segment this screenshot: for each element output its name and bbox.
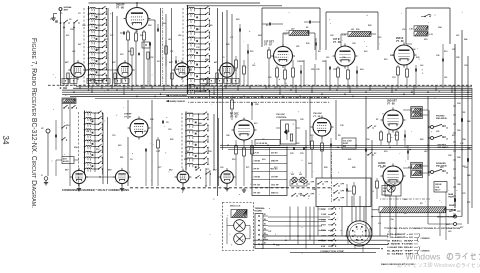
wire antenna feed	[60, 21, 62, 86]
svg-text:C50: C50	[255, 104, 258, 106]
svg-text:C3: C3	[78, 13, 80, 15]
svg-text:Windows: Windows	[434, 263, 455, 269]
gang dashed line to tuning	[188, 96, 330, 98]
wire v drop c	[335, 100, 337, 140]
wire v drop e	[371, 140, 373, 236]
svg-text:VT - 86: VT - 86	[396, 41, 404, 43]
svg-text:C31: C31	[330, 231, 333, 233]
svg-text:C78: C78	[290, 153, 293, 155]
wire if1 loop	[325, 12, 327, 50]
svg-text:C60: C60	[457, 103, 460, 105]
bottom bus 3	[254, 243, 388, 245]
svg-text:L71: L71	[230, 37, 233, 39]
svg-text:C51: C51	[311, 69, 314, 71]
svg-text:LM: LM	[291, 174, 294, 176]
svg-text:R35: R35	[226, 44, 229, 46]
dynamotor dashed enclosure	[223, 203, 254, 251]
table top box	[255, 140, 280, 146]
svg-text:8 FILAMENT + 6V: 8 FILAMENT + 6V	[387, 233, 414, 236]
svg-text:L11: L11	[378, 223, 381, 225]
wire right rail 2	[461, 30, 463, 217]
svg-text:S15: S15	[254, 123, 257, 125]
svg-text:E1: E1	[264, 214, 266, 216]
capacitor C79	[302, 147, 304, 150]
resistor R63	[321, 143, 324, 151]
svg-text:E5: E5	[264, 233, 266, 235]
bus junction dots	[60, 87, 469, 97]
tube V3 (RF amp)	[115, 60, 134, 79]
tube V5 (1ST IF)	[333, 44, 358, 69]
svg-text:2ND IF: 2ND IF	[396, 38, 404, 40]
cathode parts V5 C30	[355, 71, 357, 74]
capacitor C15	[246, 51, 248, 54]
svg-text:LF 40 HF 86: LF 40 HF 86	[257, 142, 268, 145]
svg-text:R46: R46	[464, 38, 467, 41]
svg-text:AUDIO: AUDIO	[378, 162, 386, 165]
coupling cap C66	[460, 118, 462, 121]
ground G3	[243, 188, 245, 190]
svg-text:L92: L92	[326, 57, 329, 59]
svg-text:1-30: 1-30	[342, 35, 346, 37]
svg-text:L1: L1	[372, 191, 374, 193]
svg-text:C30: C30	[268, 77, 271, 79]
coupling cap C68	[453, 198, 455, 201]
svg-text:C32: C32	[196, 47, 199, 49]
svg-text:R35: R35	[306, 43, 309, 45]
wire lamp leads	[290, 179, 292, 181]
svg-text:C52: C52	[150, 57, 153, 59]
svg-text:L85: L85	[424, 151, 427, 153]
svg-text:C50: C50	[366, 139, 369, 141]
resistor R16	[243, 66, 246, 74]
svg-text:BAND CHANGE: BAND CHANGE	[170, 100, 186, 103]
svg-text:2ND KC: 2ND KC	[271, 192, 279, 194]
svg-text:S83: S83	[118, 145, 121, 147]
svg-text:VT - 86: VT - 86	[387, 104, 395, 106]
wire right rail 3	[467, 56, 469, 224]
svg-text:L29: L29	[252, 65, 255, 67]
wire align leads	[74, 159, 79, 161]
resistor R61	[290, 134, 292, 141]
cathode parts V6 R40	[397, 67, 400, 75]
ground G2	[44, 177, 48, 181]
svg-text:C68: C68	[82, 25, 85, 27]
dynamotor filter choke	[231, 210, 247, 218]
svg-text:S93: S93	[384, 151, 387, 153]
wire J1 tails	[354, 246, 356, 249]
resistor R1	[127, 32, 130, 40]
resistor R51	[235, 146, 238, 154]
grid resistor network R22	[284, 70, 287, 79]
svg-text:R36: R36	[356, 29, 359, 31]
bottom bus 5	[290, 251, 376, 253]
trimmer block TC1	[142, 42, 150, 48]
bus wire top	[76, 85, 472, 87]
svg-text:R48: R48	[96, 48, 99, 51]
component reference labels	[66, 19, 467, 247]
svg-text:C61: C61	[462, 112, 465, 114]
svg-text:L21: L21	[351, 29, 354, 31]
svg-text:C1: C1	[60, 13, 62, 15]
svg-text:VT - 87: VT - 87	[230, 117, 238, 119]
scan speckle noise	[52, 10, 463, 254]
cathode parts V6 R41	[406, 69, 409, 77]
svg-text:S69: S69	[262, 159, 265, 161]
svg-text:R3: R3	[420, 203, 422, 205]
svg-text:R19: R19	[384, 59, 387, 61]
svg-text:ANT: ANT	[64, 9, 69, 12]
jack J3 (I.F. output)	[46, 129, 50, 133]
wire top rail 2	[188, 5, 283, 7]
capacitor C78	[292, 147, 294, 150]
svg-text:C66: C66	[342, 57, 345, 59]
svg-text:SIGNAL: SIGNAL	[64, 6, 73, 9]
wire mid rail 3	[228, 149, 472, 151]
svg-text:Windows: Windows	[406, 252, 441, 262]
svg-text:C68: C68	[467, 175, 470, 177]
cathode resistor R80	[376, 181, 379, 188]
watermark line 2 activation note	[0, 0, 1, 1]
potentiometer R60	[286, 124, 289, 132]
svg-text:2 GND: 2 GND	[321, 214, 327, 216]
gang dash switch	[331, 152, 333, 202]
pilot lamp PL1	[387, 184, 395, 192]
ground V9	[78, 187, 80, 189]
diode resistor R70	[380, 132, 383, 140]
terminal board TB1	[255, 214, 268, 249]
svg-text:R63: R63	[310, 135, 313, 137]
svg-text:VT - 86: VT - 86	[333, 42, 341, 44]
wire left links	[55, 120, 57, 150]
svg-text:C53: C53	[333, 69, 336, 71]
capacitor C17	[314, 43, 316, 46]
capacitor C16	[308, 21, 310, 24]
wire box drops	[309, 207, 311, 241]
svg-text:S35: S35	[120, 54, 123, 56]
bus wire B+	[73, 87, 472, 89]
svg-text:C91: C91	[274, 57, 277, 59]
svg-text:C28: C28	[352, 43, 355, 45]
svg-text:E2: E2	[264, 219, 266, 221]
svg-text:C96: C96	[436, 55, 439, 57]
wire V9 V10 link	[86, 176, 116, 178]
svg-text:S70: S70	[274, 167, 277, 169]
bottom bus junction dots	[261, 235, 383, 249]
top center capacitor labels	[60, 13, 336, 71]
svg-text:S89: S89	[236, 19, 239, 21]
svg-text:200 KC: 200 KC	[271, 152, 278, 154]
switch SW7	[63, 107, 64, 108]
svg-text:BD-77: BD-77	[435, 190, 440, 192]
coil bank L1 (1st RF switched coils)	[88, 6, 107, 89]
svg-text:4 SIDE TONE: 4 SIDE TONE	[387, 243, 414, 246]
svg-text:R88: R88	[150, 119, 153, 121]
cathode resistor V2	[67, 73, 69, 79]
svg-text:2: 2	[300, 172, 301, 174]
capacitor C82	[364, 149, 366, 152]
capacitor C20	[268, 23, 270, 26]
dashed gang bottom	[380, 198, 430, 200]
wire choke leads	[372, 209, 379, 211]
microphone jack J7	[454, 215, 457, 218]
resistor R52	[243, 148, 246, 156]
wire T2 leads	[341, 33, 348, 35]
svg-text:R49: R49	[352, 166, 355, 169]
svg-text:HF 8T: HF 8T	[254, 168, 260, 170]
svg-text:C85: C85	[456, 57, 459, 59]
svg-text:R76: R76	[250, 51, 253, 53]
tube V3A (RF amp)	[172, 60, 191, 79]
svg-text:C28: C28	[316, 69, 319, 71]
tube V1 (2ND RF VT-86)	[124, 5, 151, 32]
bus wire screen	[62, 89, 472, 91]
bias box B1	[382, 186, 392, 196]
tube V10 (RF amp lower)	[113, 168, 131, 186]
svg-text:GEAR: GEAR	[448, 193, 454, 196]
svg-text:C83: C83	[383, 188, 386, 190]
svg-text:R71: R71	[246, 167, 249, 169]
IF transformer T4 (3rd IF coil)	[411, 107, 423, 119]
wire mid rail 1	[220, 144, 472, 146]
svg-text:C65: C65	[467, 148, 470, 150]
dynamotor armature M2	[234, 233, 246, 245]
svg-text:LM: LM	[299, 174, 302, 176]
svg-text:R77: R77	[186, 151, 189, 153]
wire V1 outer loop	[160, 8, 162, 86]
bank L1 right rails	[107, 8, 109, 86]
plug connector J1	[347, 221, 372, 246]
mechanical gang dashed bus	[48, 84, 472, 86]
svg-text:R12: R12	[96, 149, 99, 151]
svg-text:R9: R9	[318, 51, 320, 53]
svg-text:C43: C43	[330, 34, 333, 37]
wire tb runs right	[268, 216, 330, 218]
svg-text:TYPICAL PLUG CONNECTIONS D-C O: TYPICAL PLUG CONNECTIONS D-C OPERATION	[384, 227, 461, 230]
bus interconnect stubs	[65, 85, 452, 95]
svg-text:C60: C60	[220, 167, 223, 169]
svg-text:ALIGN: ALIGN	[63, 160, 69, 163]
wire T1 leads	[283, 32, 289, 34]
coil bank L2 (2nd RF switched coils)	[187, 6, 210, 97]
cathode parts V5 R31	[347, 70, 350, 79]
svg-text:R17: R17	[460, 227, 463, 229]
wire ant run	[428, 223, 454, 225]
tube V4 (1ST DET)	[271, 44, 295, 68]
svg-text:C38: C38	[340, 125, 343, 127]
svg-text:2ND AF: 2ND AF	[435, 183, 442, 186]
capacitor C8	[144, 149, 146, 152]
wire det loop top	[261, 8, 263, 47]
switch S6 feedback	[424, 16, 425, 17]
svg-text:E3: E3	[264, 224, 266, 226]
svg-text:C81: C81	[436, 131, 439, 133]
gang dash line mid	[182, 8, 184, 85]
resistor R62	[311, 141, 314, 149]
bottom bus 1	[262, 235, 388, 237]
wire T5 leads	[403, 167, 411, 169]
svg-text:L52: L52	[456, 35, 459, 37]
svg-text:1ST RF: 1ST RF	[271, 176, 279, 178]
svg-text:7 FILAMENT + 6V: 7 FILAMENT + 6V	[387, 236, 414, 239]
svg-text:S42: S42	[258, 34, 261, 37]
line filter choke L9	[379, 207, 446, 213]
svg-text:R20: R20	[300, 195, 303, 197]
connection strip rows	[321, 207, 336, 248]
svg-text:R10: R10	[232, 159, 235, 161]
svg-text:4 KEY: 4 KEY	[321, 224, 327, 227]
svg-text:C57: C57	[170, 51, 173, 53]
capacitor C1	[55, 20, 57, 23]
node dots antenna	[63, 27, 65, 29]
capacitor C18	[156, 29, 158, 32]
svg-text:R96: R96	[412, 49, 415, 51]
svg-text:VT - 86: VT - 86	[116, 7, 125, 10]
gang dashed line to bandswitch	[188, 101, 330, 103]
cathode resistor V3	[114, 73, 116, 79]
wire if2 outer loop	[405, 8, 407, 44]
svg-text:C21: C21	[296, 46, 299, 48]
svg-text:R60: R60	[205, 59, 208, 61]
svg-text:R83: R83	[368, 25, 371, 27]
svg-text:C55: C55	[394, 135, 397, 137]
tube V6 (2ND IF)	[392, 43, 417, 68]
svg-text:S10: S10	[157, 61, 160, 63]
svg-text:R70: R70	[348, 191, 351, 193]
svg-text:S47: S47	[78, 43, 81, 46]
IF transformer T2 (2nd IF coil)	[348, 32, 371, 37]
svg-text:R84: R84	[383, 190, 386, 193]
capacitor C6	[148, 43, 150, 46]
gang dash line mid-center	[181, 113, 183, 168]
mid rail junction dots	[227, 145, 463, 151]
svg-text:R32: R32	[416, 57, 419, 59]
svg-text:1-30: 1-30	[284, 34, 288, 36]
svg-text:1ST IF: 1ST IF	[333, 39, 340, 41]
svg-text:2ND AUDIO: 2ND AUDIO	[438, 146, 449, 149]
IF transformer T1 (1st IF coil)	[289, 31, 309, 36]
gang dash to tuning	[162, 8, 164, 84]
svg-text:L78: L78	[460, 143, 463, 145]
diode resistor R71	[388, 134, 391, 142]
svg-text:R8: R8	[338, 135, 340, 137]
svg-text:C2: C2	[69, 19, 71, 21]
svg-text:C9: C9	[166, 122, 168, 124]
svg-text:L23: L23	[430, 34, 433, 36]
wire strip links	[318, 208, 326, 210]
svg-text:R21: R21	[348, 159, 351, 161]
svg-text:TERMINAL: TERMINAL	[255, 207, 266, 210]
wire v drop d	[365, 96, 367, 236]
resistor R18	[165, 46, 168, 54]
capacitor C42	[441, 59, 443, 62]
svg-text:8 SW: 8 SW	[321, 246, 326, 248]
diode resistor R72	[396, 132, 399, 140]
svg-text:C12: C12	[286, 131, 289, 133]
svg-text:C7: C7	[262, 139, 264, 141]
dynamotor armature M1	[234, 220, 246, 232]
svg-text:C82: C82	[448, 155, 451, 157]
wire osc feed rail	[226, 10, 228, 86]
svg-text:S88: S88	[148, 25, 151, 27]
volume control box	[342, 138, 356, 149]
svg-text:R70: R70	[104, 39, 107, 41]
svg-text:L55: L55	[444, 77, 447, 79]
grid resistor network R21	[276, 68, 279, 77]
svg-text:R9: R9	[404, 213, 406, 215]
capacitor C9	[161, 121, 163, 124]
resistor R15	[235, 60, 238, 68]
svg-text:C50: C50	[168, 129, 171, 131]
svg-text:L82: L82	[168, 39, 171, 41]
antenna jack J8	[454, 223, 457, 226]
switch S22	[61, 127, 62, 128]
ground G1	[53, 16, 55, 18]
svg-text:C99: C99	[300, 119, 303, 121]
resistor R2	[135, 33, 138, 41]
svg-text:R22: R22	[296, 143, 299, 145]
capacitor C90	[345, 189, 347, 192]
wire v drop f	[427, 96, 429, 208]
svg-text:C72: C72	[457, 211, 460, 213]
resistor R90	[353, 186, 356, 194]
dial lamp LM1	[292, 177, 297, 182]
tube V12 (AUDIO)	[381, 164, 406, 189]
gang dash line mid-left	[78, 112, 80, 186]
bank L2 right rails	[217, 8, 219, 95]
svg-text:C29: C29	[464, 65, 467, 67]
svg-text:S61: S61	[66, 35, 69, 37]
svg-text:C18: C18	[392, 77, 395, 79]
svg-text:C50: C50	[300, 61, 303, 63]
bank L4 right rails	[213, 114, 215, 170]
wire top center drops	[303, 60, 305, 86]
trimmer capacitor row TC2-TC13	[62, 78, 239, 83]
small coil box L5	[62, 98, 76, 104]
svg-text:LF 4T: LF 4T	[254, 151, 260, 154]
grid resistor network R23	[292, 68, 295, 77]
capacitor C72	[403, 135, 405, 138]
svg-text:C65: C65	[404, 147, 407, 149]
resistor R53	[251, 146, 254, 154]
svg-text:2: 2	[360, 237, 361, 239]
potentiometer box PB1	[281, 120, 297, 144]
svg-text:HF 16T: HF 16T	[254, 192, 261, 194]
svg-text:L69: L69	[420, 65, 423, 67]
svg-text:BOARD: BOARD	[255, 209, 263, 212]
svg-text:HF 12T: HF 12T	[254, 184, 261, 186]
svg-text:R1: R1	[266, 25, 268, 27]
wire J1 feeds	[351, 196, 353, 223]
svg-text:3: 3	[357, 237, 358, 239]
svg-text:CW 6B: CW 6B	[254, 160, 261, 162]
svg-text:C71: C71	[467, 202, 470, 204]
svg-text:C87: C87	[86, 131, 89, 133]
svg-text:R53: R53	[66, 125, 69, 127]
svg-text:C79: C79	[300, 153, 303, 155]
svg-text:R26: R26	[343, 146, 346, 148]
tube V10A (RF amp lower)	[175, 169, 192, 186]
svg-text:S63: S63	[440, 167, 443, 169]
wire drops left-mid	[61, 104, 63, 157]
svg-text:3 GEAR REL RELAY: 3 GEAR REL RELAY	[387, 246, 414, 249]
svg-text:R53: R53	[424, 39, 427, 41]
wire right rail 1	[454, 44, 456, 208]
svg-text:C71: C71	[206, 169, 209, 171]
svg-text:S32: S32	[196, 29, 199, 31]
resistor R20	[268, 50, 271, 58]
tube V13 (CW OSC)	[311, 116, 334, 139]
svg-text:VOL CONT: VOL CONT	[343, 141, 353, 143]
